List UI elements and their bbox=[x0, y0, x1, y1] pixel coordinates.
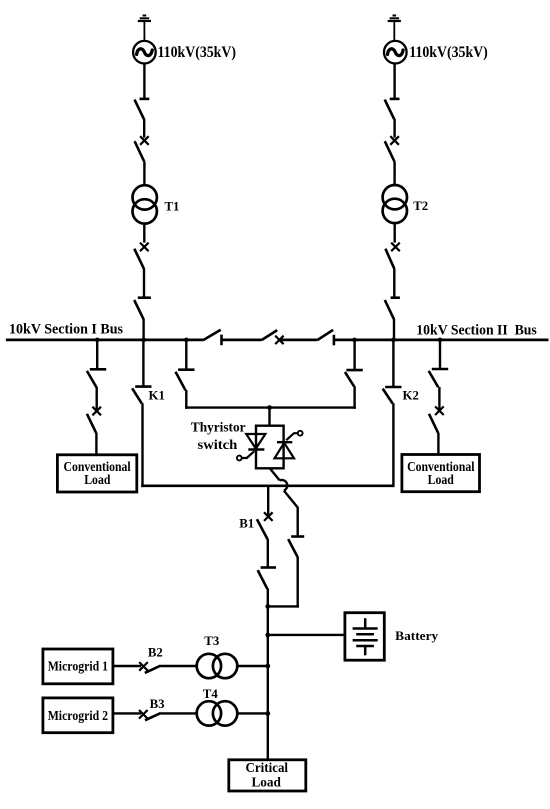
svg-text:Battery: Battery bbox=[395, 628, 439, 643]
box battery bbox=[345, 613, 384, 661]
transformer T3 bbox=[197, 654, 238, 678]
breaker X mark left upper bbox=[140, 136, 149, 145]
tie breaker X mark bbox=[275, 336, 283, 344]
wire bbox=[143, 119, 145, 138]
svg-text:Load: Load bbox=[84, 472, 111, 487]
blade B1 bbox=[257, 519, 268, 539]
switch K2 (bar + blade) bbox=[383, 387, 402, 404]
wire T2 down bbox=[394, 225, 396, 243]
wire T1 down bbox=[143, 225, 145, 243]
transformer T2 bbox=[383, 185, 407, 223]
svg-text:Microgrid 1: Microgrid 1 bbox=[48, 659, 108, 674]
wire bus to inner-right switch bbox=[353, 340, 355, 370]
blade below T2 breaker bbox=[385, 249, 394, 269]
tie wire segment bbox=[222, 338, 262, 341]
wire to T4 bbox=[161, 712, 197, 714]
svg-text:B2: B2 bbox=[148, 645, 163, 659]
node K2 tap at bus II bbox=[391, 338, 396, 343]
svg-text:switch: switch bbox=[198, 437, 238, 452]
wire thyristor feeder horizontal bbox=[185, 406, 356, 408]
box Critical Load bbox=[229, 760, 306, 791]
node T3 tap bbox=[265, 664, 270, 669]
breaker X mark left load bbox=[92, 407, 101, 416]
transformer T4 bbox=[197, 701, 238, 725]
wire to T2 bbox=[393, 162, 395, 186]
wire bbox=[438, 387, 440, 411]
AC source S2 110kV(35kV) right bbox=[384, 41, 407, 64]
wire K1 down bbox=[141, 403, 143, 487]
disconnector DS1 (bar + blade) bbox=[135, 99, 150, 119]
bus Section II (horizontal) bbox=[334, 338, 549, 341]
svg-text:K2: K2 bbox=[403, 389, 419, 403]
node thyristor tap bbox=[267, 405, 272, 410]
disconnector above bus II (bar + blade) bbox=[385, 298, 400, 320]
wire bus to K2 bbox=[392, 340, 394, 387]
ground G1 (inverted earth symbol, left source) bbox=[138, 16, 151, 41]
breaker X mark right upper bbox=[390, 136, 399, 145]
wire battery branch bbox=[268, 634, 345, 636]
blade B3 (horizontal switch) bbox=[145, 713, 161, 720]
breaker X mark right load bbox=[435, 406, 444, 415]
wire to thyristor output disconnector bbox=[297, 507, 299, 537]
wire bus to disconnector bbox=[96, 340, 98, 369]
breaker X mark B2 bbox=[139, 662, 148, 671]
tie breaker blade bbox=[262, 330, 278, 340]
wire to T3 bbox=[160, 665, 196, 667]
wire to load box bbox=[95, 433, 97, 455]
node K1 tap at bus I bbox=[141, 338, 146, 343]
node battery tap bbox=[265, 633, 270, 638]
switch inner-left (bar + blade) bbox=[176, 370, 195, 391]
node inner-left tap at bus I bbox=[184, 338, 189, 343]
bus Section I (horizontal) bbox=[6, 338, 204, 341]
wire microgrid1 to breaker B2 bbox=[113, 665, 141, 667]
wire into bus II bbox=[393, 319, 395, 341]
svg-text:K1: K1 bbox=[149, 389, 165, 403]
wire microgrid2 to breaker B3 bbox=[113, 712, 141, 714]
node inner-right tap at bus II bbox=[352, 338, 357, 343]
svg-text:10kV Section II Bus: 10kV Section II Bus bbox=[416, 322, 537, 338]
wire bbox=[393, 269, 395, 298]
svg-text:Load: Load bbox=[251, 774, 281, 789]
wire diagonal resumes bbox=[284, 491, 298, 508]
wire main vertical microgrid bus bbox=[267, 606, 269, 759]
wire source to disconnector right bbox=[393, 64, 395, 99]
breaker X mark B1 bbox=[264, 512, 273, 521]
breaker X mark below T1 bbox=[140, 243, 149, 252]
battery symbol (two cells) bbox=[353, 618, 378, 655]
disconnector thyristor output (bar + blade) bbox=[288, 537, 304, 557]
svg-text:T1: T1 bbox=[165, 200, 180, 214]
wire bus to disconnector bbox=[439, 340, 441, 369]
tie switch contact bar left bbox=[220, 335, 223, 346]
wire hop (crossing jump over K1-K2 tie) bbox=[280, 480, 288, 491]
switch inner-right (bar + blade) bbox=[345, 370, 363, 386]
tie switch blade right bbox=[318, 330, 334, 340]
wire T3 to microgrid bus bbox=[237, 665, 267, 667]
svg-text:Critical: Critical bbox=[246, 760, 289, 775]
blade left load bbox=[87, 414, 96, 433]
breaker X mark below T2 bbox=[391, 243, 400, 252]
thyristor right (up-conducting: cathode bar, triangle, gate, gate terminal) bbox=[275, 431, 303, 458]
node junction B1/thyristor bbox=[265, 604, 270, 609]
wire inner-left down bbox=[185, 390, 187, 409]
thyristor box U1 bbox=[256, 426, 284, 469]
wire T4 to microgrid bus bbox=[237, 712, 267, 714]
box Microgrid 2 bbox=[43, 698, 113, 733]
wire low tie horizontal K1-K2 bbox=[141, 484, 393, 487]
wire to T1 bbox=[143, 162, 145, 186]
svg-text:B1: B1 bbox=[239, 517, 254, 531]
tie switch contact bar right bbox=[333, 335, 336, 346]
box Microgrid 1 bbox=[43, 649, 113, 684]
wire K2 down bbox=[392, 403, 394, 487]
wire horizontal to B1 junction bbox=[267, 605, 299, 607]
tie wire segment 2 bbox=[279, 338, 317, 341]
switch blade below breaker bbox=[135, 141, 145, 161]
node tap bus I to left load bbox=[95, 338, 100, 343]
switch blade below right breaker bbox=[385, 141, 395, 161]
ground G2 (inverted earth symbol, right source) bbox=[388, 16, 401, 41]
disconnector left load (bar + blade) bbox=[87, 369, 106, 387]
wire source to disconnector bbox=[143, 64, 145, 99]
wire down to junction bbox=[297, 557, 299, 608]
wire low-tie to B1 breaker bbox=[267, 486, 269, 515]
thyristor left (down-conducting: triangle, cathode bar, gate, gate terminal) bbox=[237, 434, 265, 460]
breaker X mark B3 bbox=[139, 710, 148, 719]
wire to junction bbox=[267, 588, 269, 606]
tie switch blade left bbox=[203, 330, 220, 340]
node tap bus II to right load bbox=[438, 338, 443, 343]
svg-text:Load: Load bbox=[428, 472, 455, 487]
wire diagonal from thyristor box bottom bbox=[270, 468, 280, 480]
wire bbox=[267, 539, 269, 568]
blade B2 (horizontal switch) bbox=[145, 666, 161, 673]
svg-text:Thyristor: Thyristor bbox=[191, 419, 246, 434]
wire to load box bbox=[437, 433, 439, 455]
wire down into thyristor box bbox=[268, 408, 270, 426]
svg-text:Microgrid 2: Microgrid 2 bbox=[48, 708, 109, 723]
disconnector above bus I (bar + blade) bbox=[134, 298, 151, 320]
disconnector DS2 (bar + blade) bbox=[385, 99, 400, 119]
node T4 tap bbox=[265, 711, 270, 716]
svg-text:B3: B3 bbox=[150, 697, 165, 711]
wire bbox=[143, 269, 145, 298]
wire inner-right down bbox=[353, 386, 355, 409]
svg-text:T4: T4 bbox=[203, 687, 219, 701]
switch K1 (bar + blade) bbox=[132, 387, 151, 404]
disconnector B1 lower (bar + blade) bbox=[258, 568, 276, 589]
svg-text:T2: T2 bbox=[413, 199, 428, 213]
svg-text:10kV Section I Bus: 10kV Section I Bus bbox=[9, 321, 123, 337]
svg-text:110kV(35kV): 110kV(35kV) bbox=[158, 44, 237, 61]
AC source S1 110kV(35kV) left bbox=[133, 41, 156, 64]
wire bus to K1 bbox=[142, 340, 144, 387]
wire bbox=[393, 119, 395, 138]
wire bus to inner-left switch bbox=[185, 340, 187, 370]
wire into bus I bbox=[142, 319, 144, 341]
svg-text:T3: T3 bbox=[204, 634, 219, 648]
svg-text:110kV(35kV): 110kV(35kV) bbox=[409, 44, 488, 61]
transformer T1 bbox=[133, 185, 157, 223]
box Conventional Load left bbox=[57, 455, 136, 492]
blade below T1 breaker bbox=[134, 249, 144, 269]
wire bbox=[95, 387, 97, 411]
box Conventional Load right bbox=[402, 455, 480, 492]
disconnector right load (bar + blade) bbox=[429, 369, 449, 387]
blade right load bbox=[429, 414, 438, 433]
